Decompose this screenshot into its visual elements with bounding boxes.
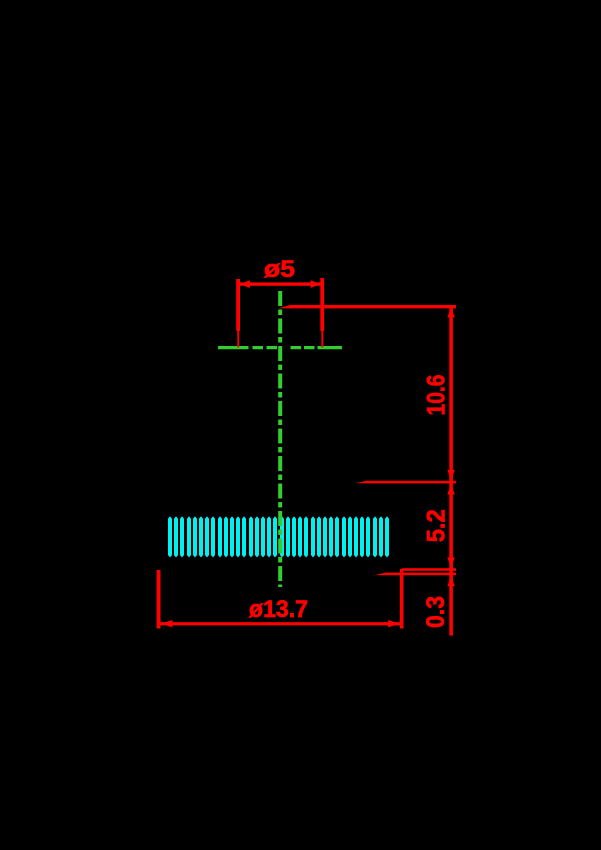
svg-text:0.3: 0.3 xyxy=(422,596,450,628)
ø13.7 right extension line xyxy=(400,569,404,629)
0.3 lower boundary taper xyxy=(374,572,387,575)
horizontal centerline (dashed, green) xyxy=(218,346,342,349)
svg-text:ø5: ø5 xyxy=(264,256,295,283)
5.2 top arrowhead xyxy=(447,484,455,495)
knurled band hatch (cyan) xyxy=(168,519,389,556)
0.3 lower boundary line xyxy=(386,573,456,576)
10.6 top extension line xyxy=(290,305,456,308)
5.2 bottom arrowhead xyxy=(447,557,455,567)
svg-text:ø13.7: ø13.7 xyxy=(249,596,308,623)
ø5 right arrowhead xyxy=(311,280,321,288)
svg-text:5.2: 5.2 xyxy=(422,509,450,542)
10.6 bottom arrowhead xyxy=(447,470,455,480)
ø5 left arrowhead xyxy=(240,280,250,288)
ø13.7 dimension line xyxy=(159,622,402,625)
10.6 top extension taper xyxy=(278,305,291,309)
5.2 upper extension taper xyxy=(356,481,367,484)
ø13.7 left arrowhead xyxy=(161,620,173,627)
0.3 upper boundary line xyxy=(402,568,456,571)
ø5 right extension line xyxy=(320,278,324,348)
5.2 upper extension line xyxy=(366,481,456,484)
ø5 left extension line xyxy=(236,279,240,348)
ø13.7 right arrowhead xyxy=(388,620,400,627)
knurl tooth tips xyxy=(168,516,389,557)
ø5 dimension line xyxy=(238,282,322,285)
main vertical dimension line xyxy=(449,305,453,636)
0.3 bottom arrowhead xyxy=(447,576,455,586)
svg-text:10.6: 10.6 xyxy=(422,375,450,416)
ø13.7 left extension line xyxy=(157,570,161,629)
10.6 top arrowhead xyxy=(447,308,455,318)
vertical centerline (dash-dot, green) xyxy=(278,291,282,587)
